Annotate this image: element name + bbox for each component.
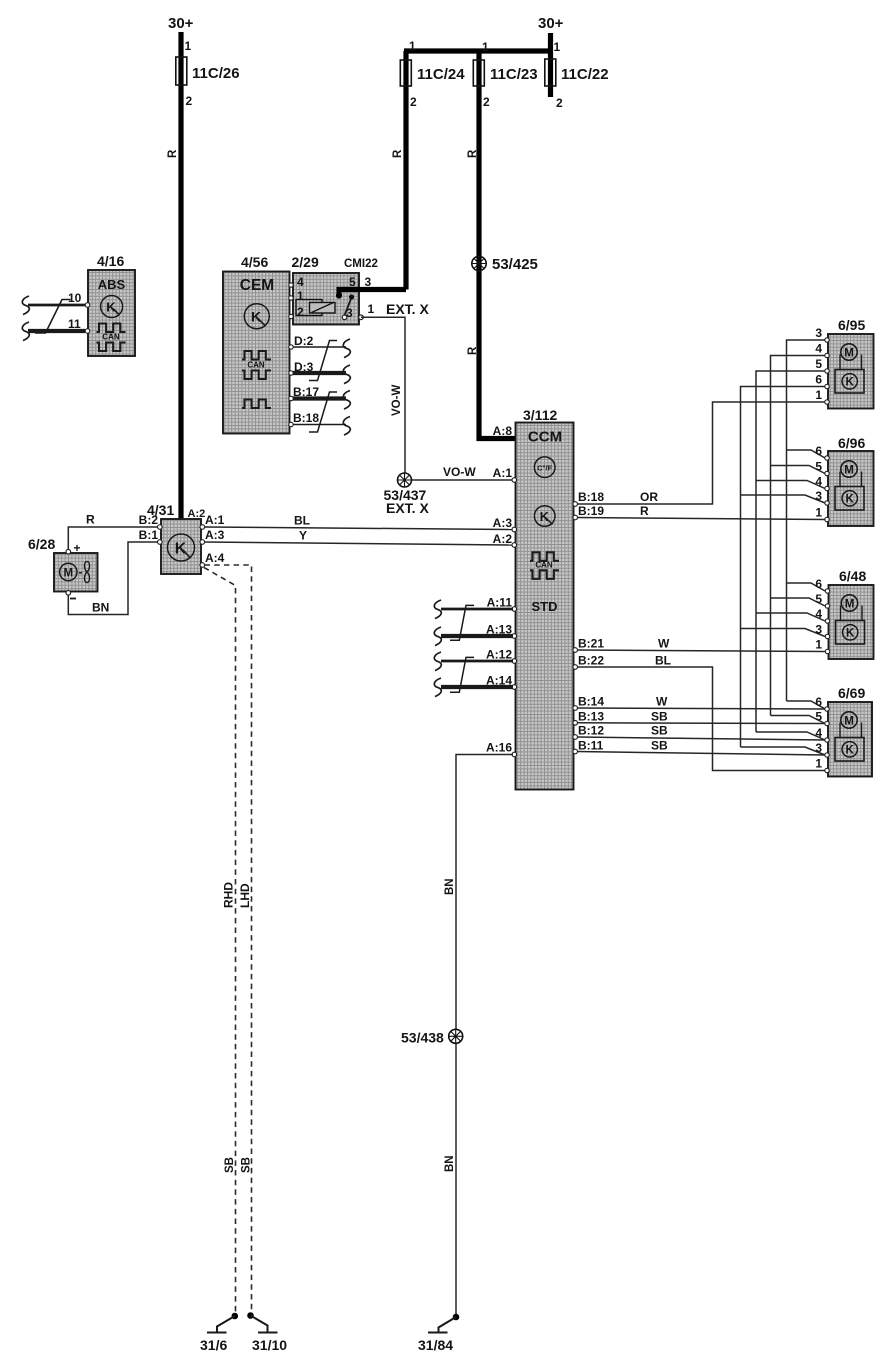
bus wire W net (6/95 pin3, 6/96 pin6, 6/48 pin6, 6/69 pin6) <box>787 340 826 709</box>
svg-text:1: 1 <box>185 39 192 53</box>
svg-text:ABS: ABS <box>98 277 126 292</box>
svg-text:5: 5 <box>815 460 822 474</box>
svg-text:R: R <box>86 513 95 527</box>
wire EXT. X from relay 2/29 pin 3 to splice 53/437 <box>361 301 429 473</box>
svg-text:K: K <box>106 300 116 315</box>
splice 53/437 EXT. X <box>384 473 430 516</box>
svg-text:6: 6 <box>815 695 822 709</box>
ground 31/10 <box>247 1312 287 1353</box>
svg-text:A:8: A:8 <box>493 424 513 438</box>
svg-text:1: 1 <box>482 40 489 54</box>
svg-text:5: 5 <box>815 592 822 606</box>
svg-text:4: 4 <box>297 275 304 289</box>
wire W from CCM B:14 to 6/69 pin 6 <box>577 695 825 710</box>
svg-text:+: + <box>74 541 81 555</box>
twisted-pair symbol (CEM D:2/D:3) <box>309 341 337 381</box>
wire label R (11C/23 lower run) <box>467 346 479 355</box>
fan motor 6/28 <box>28 536 98 599</box>
ground 31/6 <box>200 1313 238 1353</box>
svg-text:11: 11 <box>68 317 81 331</box>
twisted-pair symbol (ABS 10/11) <box>35 300 71 334</box>
svg-text:STD: STD <box>532 599 558 614</box>
svg-text:CEM: CEM <box>240 277 274 294</box>
svg-text:4/56: 4/56 <box>241 254 268 270</box>
svg-text:VO-W: VO-W <box>443 465 476 479</box>
svg-text:30+: 30+ <box>538 15 564 32</box>
CCM pin circles <box>512 478 578 757</box>
svg-text:OR: OR <box>640 490 658 504</box>
svg-text:6/95: 6/95 <box>838 317 865 333</box>
svg-text:M: M <box>64 568 74 580</box>
wire SB from CCM B:13 to 6/69 pin 5 <box>577 710 825 724</box>
svg-text:3: 3 <box>815 623 822 637</box>
svg-text:A:2: A:2 <box>493 532 513 546</box>
svg-text:B:21: B:21 <box>578 637 604 651</box>
wire to ABS pin 11 <box>28 317 85 331</box>
svg-text:11C/22: 11C/22 <box>561 66 609 83</box>
svg-text:1: 1 <box>409 39 416 53</box>
node 30+ (right feed) <box>538 15 564 32</box>
svg-text:W: W <box>656 695 668 709</box>
svg-text:A:12: A:12 <box>486 648 512 662</box>
CCM left pin labels <box>486 424 512 755</box>
svg-text:6: 6 <box>815 373 822 387</box>
wire CCM A:11 <box>441 608 513 611</box>
wire label BN (upper) <box>444 878 456 895</box>
svg-text:1: 1 <box>815 638 822 652</box>
svg-text:4: 4 <box>815 726 822 740</box>
svg-text:RHD: RHD <box>222 882 236 908</box>
wire label RHD <box>222 882 236 908</box>
wire to ABS pin 10 <box>28 291 85 305</box>
svg-text:B:18: B:18 <box>293 411 319 425</box>
twisted-pair symbol (A:11/A:13) <box>450 605 474 640</box>
svg-text:A:3: A:3 <box>493 516 513 530</box>
CCM right pin labels <box>578 490 604 753</box>
svg-text:2: 2 <box>186 94 193 108</box>
svg-text:1: 1 <box>554 40 561 54</box>
svg-text:R: R <box>467 346 479 355</box>
svg-text:R: R <box>167 149 179 158</box>
svg-text:2: 2 <box>556 96 563 110</box>
relay 2/29 CMI22 <box>292 254 378 325</box>
wire BL from CCM B:22 to 6/69 pin 1 <box>577 654 825 771</box>
wire label SB (RHD run) <box>224 1157 236 1173</box>
relay module 4/31 <box>139 502 225 574</box>
svg-text:1: 1 <box>297 289 304 303</box>
wire BL from 4/31 A:1 to CCM A:3 <box>205 514 514 530</box>
svg-text:6/28: 6/28 <box>28 536 55 552</box>
svg-text:3: 3 <box>815 489 822 503</box>
wire continuation squiggle (D:3) <box>343 365 350 384</box>
motor module 6/69 <box>815 685 872 777</box>
svg-text:A:4: A:4 <box>205 551 225 565</box>
node 30+ (left feed) <box>168 15 194 32</box>
wire R from 30+ through fuse 11C/26 down to 4/31 pin A:2 <box>178 32 183 519</box>
svg-text:6/69: 6/69 <box>838 685 865 701</box>
svg-text:B:12: B:12 <box>578 724 604 738</box>
svg-text:SB: SB <box>651 739 668 753</box>
svg-text:BN: BN <box>92 601 109 615</box>
wire CCM A:12 <box>441 660 513 663</box>
svg-text:2: 2 <box>483 95 490 109</box>
wire CEM B:18 <box>289 422 346 426</box>
wire continuation squiggle (D:2) <box>343 339 350 358</box>
svg-text:CAN: CAN <box>247 361 265 370</box>
svg-text:53/425: 53/425 <box>492 256 538 273</box>
wire SB from CCM B:11 to 6/69 pin 3 <box>577 739 825 756</box>
svg-text:A:2: A:2 <box>188 508 206 520</box>
wire CEM D:3 <box>289 371 346 375</box>
svg-text:3/112: 3/112 <box>523 407 557 423</box>
svg-text:R: R <box>640 504 649 518</box>
svg-text:B:19: B:19 <box>578 504 604 518</box>
wire SB from CCM B:12 to 6/69 pin 4 <box>577 724 825 741</box>
wire label R (11C/24 run) <box>392 149 404 158</box>
pin labels CEM D:2 D:3 B:17 B:18 <box>293 334 319 425</box>
svg-text:R: R <box>392 149 404 158</box>
bus wire SB net B:12 (6/95 pin5, 6/96 pin4, 6/48 pin4, 6/69 pin4) <box>756 371 825 740</box>
svg-text:A:3: A:3 <box>205 528 225 542</box>
svg-text:A:16: A:16 <box>486 741 512 755</box>
svg-text:Y: Y <box>299 529 307 543</box>
svg-text:4: 4 <box>815 475 822 489</box>
wire W from CCM B:21 to 6/48 pin 1 <box>577 637 825 652</box>
svg-text:30+: 30+ <box>168 15 194 32</box>
wire continuation squiggle (A:12) <box>434 652 441 671</box>
svg-text:5: 5 <box>815 710 822 724</box>
svg-text:6: 6 <box>815 577 822 591</box>
ground 31/84 <box>418 1314 459 1353</box>
control module 4/16 ABS <box>85 253 135 356</box>
svg-text:CMI22: CMI22 <box>344 258 378 270</box>
svg-text:6/48: 6/48 <box>839 568 866 584</box>
svg-text:B:13: B:13 <box>578 710 604 724</box>
fuse 11C/24 <box>400 39 465 109</box>
wire R from 4/31 B:2 to 6/28 plus <box>68 513 158 550</box>
svg-text:B:14: B:14 <box>578 695 604 709</box>
svg-text:6/96: 6/96 <box>838 435 865 451</box>
wire label LHD <box>238 883 252 908</box>
svg-text:LHD: LHD <box>238 883 252 908</box>
svg-text:BL: BL <box>294 514 310 528</box>
wire BN from CCM A:16 down to ground 31/84 <box>456 755 513 1316</box>
svg-text:2/29: 2/29 <box>292 254 319 270</box>
wire CEM B:17 <box>289 396 346 400</box>
svg-text:31/6: 31/6 <box>200 1337 227 1353</box>
svg-text:1: 1 <box>368 302 375 316</box>
wire label R (11C/23 upper run) <box>467 149 479 158</box>
svg-text:CCM: CCM <box>528 429 562 446</box>
wire continuation squiggle (A:14) <box>434 678 441 697</box>
wire R from CCM B:19 to 6/96 pin 1 <box>577 504 825 520</box>
svg-text:W: W <box>658 637 670 651</box>
wire CCM A:13 <box>441 634 513 638</box>
svg-text:BN: BN <box>444 1155 456 1172</box>
svg-text:11C/24: 11C/24 <box>417 66 465 83</box>
svg-text:K: K <box>175 541 187 558</box>
svg-text:2: 2 <box>297 305 304 319</box>
pin stubs CEM to 2/29 (pins 4,1,2) <box>289 283 293 319</box>
bus wire SB net B:11 (6/95 pin6, 6/96 pin3, 6/48 pin3, 6/69 pin3) <box>741 387 826 756</box>
fuse 11C/23 <box>473 40 537 109</box>
svg-text:C°/F: C°/F <box>537 464 552 473</box>
splice 53/438 <box>401 1029 463 1045</box>
dashed wire from 4/31 A:4 (RHD branch) <box>204 568 236 1314</box>
svg-text:A:1: A:1 <box>205 513 225 527</box>
svg-text:EXT. X: EXT. X <box>386 301 429 317</box>
svg-text:EXT. X: EXT. X <box>386 500 429 516</box>
svg-text:10: 10 <box>68 291 82 305</box>
svg-text:B:1: B:1 <box>139 528 159 542</box>
svg-text:B:22: B:22 <box>578 654 604 668</box>
svg-text:4: 4 <box>815 607 822 621</box>
svg-text:5: 5 <box>815 357 822 371</box>
wire BN from 6/28 minus to 4/31 B:1 <box>68 542 158 615</box>
svg-text:CAN: CAN <box>102 333 120 342</box>
svg-text:1: 1 <box>815 388 822 402</box>
svg-text:1: 1 <box>815 506 822 520</box>
fuse 11C/26 <box>176 39 240 108</box>
svg-text:6: 6 <box>815 444 822 458</box>
svg-text:31/10: 31/10 <box>252 1337 287 1353</box>
dashed wire from 4/31 A:4 (LHD branch) <box>205 565 252 1313</box>
svg-text:3: 3 <box>815 741 822 755</box>
wire continuation squiggle (A:13) <box>434 627 441 646</box>
wire label BN (lower) <box>444 1155 456 1172</box>
wire CCM A:14 <box>441 685 513 689</box>
wire continuation squiggle (ABS 11) <box>22 322 29 341</box>
svg-text:B:2: B:2 <box>139 513 159 527</box>
svg-text:A:1: A:1 <box>493 466 513 480</box>
svg-text:A:11: A:11 <box>487 596 513 610</box>
control module 4/56 CEM <box>223 254 290 434</box>
wire continuation squiggle (A:11) <box>434 600 441 619</box>
svg-text:VO-W: VO-W <box>391 385 403 416</box>
svg-text:BN: BN <box>444 878 456 895</box>
svg-text:K: K <box>251 309 261 325</box>
svg-text:2: 2 <box>410 95 417 109</box>
svg-text:11C/23: 11C/23 <box>490 66 538 83</box>
wire 30+ bus to fuses 11C/24 11C/23 11C/22 <box>404 33 553 439</box>
svg-text:SB: SB <box>224 1157 236 1173</box>
svg-text:CAN: CAN <box>535 561 553 570</box>
svg-text:SB: SB <box>651 710 668 724</box>
svg-text:K: K <box>540 510 549 524</box>
twisted-pair symbol (A:12/A:14) <box>450 657 474 692</box>
wire OR from CCM B:18 to 6/95 pin 1 <box>577 402 825 504</box>
wire CEM D:2 <box>289 345 346 349</box>
svg-text:31/84: 31/84 <box>418 1337 453 1353</box>
svg-text:B:18: B:18 <box>578 490 604 504</box>
svg-text:3: 3 <box>365 275 372 289</box>
wire continuation squiggle (B:18) <box>343 417 350 436</box>
motor module 6/95 <box>815 317 873 409</box>
svg-text:SB: SB <box>241 1157 253 1173</box>
wire label R (11C/26 run) <box>167 149 179 158</box>
wire label SB (LHD run) <box>241 1157 253 1173</box>
svg-text:3: 3 <box>815 326 822 340</box>
twisted-pair symbol (CEM B:17/B:18) <box>309 392 337 432</box>
svg-text:11C/26: 11C/26 <box>192 65 240 82</box>
svg-text:BL: BL <box>655 654 671 668</box>
svg-text:B:11: B:11 <box>578 739 604 753</box>
svg-text:4/16: 4/16 <box>97 253 124 269</box>
svg-text:53/438: 53/438 <box>401 1030 444 1046</box>
fuse 11C/22 <box>545 40 609 110</box>
motor module 6/96 <box>815 435 873 526</box>
svg-text:D:2: D:2 <box>294 334 314 348</box>
bus wire SB net B:13 (6/95 pin4, 6/96 pin5, 6/48 pin5, 6/69 pin5) <box>771 356 826 724</box>
svg-text:1: 1 <box>815 757 822 771</box>
wire continuation squiggle (ABS 10) <box>22 296 29 315</box>
wire VO-W from splice 53/437 to CCM A:1 <box>412 465 514 480</box>
motor module 6/48 <box>815 568 873 659</box>
wire thick from fuse 11C/24 into relay 2/29 pin 5 <box>336 275 406 316</box>
wire Y from 4/31 A:3 to CCM A:2 <box>205 529 514 546</box>
splice 53/425 <box>472 256 538 273</box>
control module 3/112 CCM <box>516 407 574 790</box>
svg-text:SB: SB <box>651 724 668 738</box>
svg-text:R: R <box>467 149 479 158</box>
svg-text:4: 4 <box>815 342 822 356</box>
wire continuation squiggle (B:17) <box>343 391 350 410</box>
